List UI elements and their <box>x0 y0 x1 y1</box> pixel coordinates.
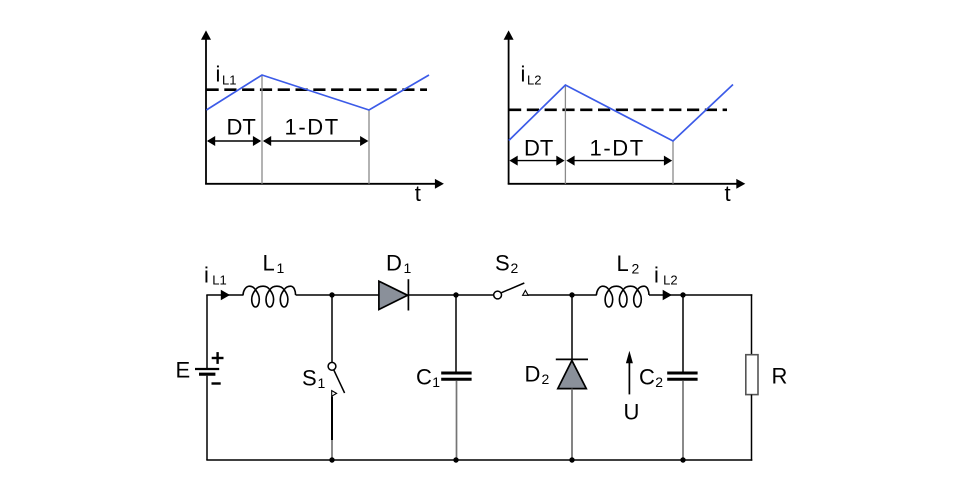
blue inductor current waveform i_L2 <box>509 85 733 142</box>
current arrow i_L1 <box>221 290 230 300</box>
svg-text:DT: DT <box>524 136 553 161</box>
svg-text:i: i <box>654 263 659 288</box>
node: D2 junction bottom <box>569 457 574 462</box>
switch S2 <box>494 283 529 299</box>
svg-text:D: D <box>386 250 402 275</box>
svg-text:R: R <box>772 363 788 388</box>
y-axis (right plot) <box>504 30 514 184</box>
svg-text:U: U <box>624 400 640 425</box>
svg-text:t: t <box>415 181 421 206</box>
node: C1 junction top <box>453 292 458 297</box>
svg-text:L2: L2 <box>527 73 541 88</box>
wire: top rail L2 to corner <box>649 294 752 296</box>
wire: top rail L1 to D1 <box>296 294 379 296</box>
1-DT dimension arrow (right plot) <box>566 156 672 166</box>
wire: C2 branch upper <box>682 295 684 372</box>
svg-text:L: L <box>263 250 275 275</box>
inductor L2 <box>596 286 649 307</box>
svg-text:1: 1 <box>277 260 285 276</box>
wire: left vertical (E branch top) <box>206 295 208 368</box>
svg-text:i: i <box>521 62 526 87</box>
switch S1 <box>328 362 345 396</box>
svg-text:DT: DT <box>227 115 256 140</box>
node: S1 junction bottom <box>329 457 334 462</box>
svg-text:C: C <box>416 365 432 390</box>
blue inductor current waveform i_L1 <box>206 75 429 110</box>
svg-text:2: 2 <box>655 374 663 390</box>
svg-text:C: C <box>639 365 655 390</box>
wire: D2 branch lower gray <box>571 389 573 460</box>
divider at period end (left plot) <box>368 110 370 184</box>
svg-text:1: 1 <box>432 374 440 390</box>
wire: top rail D1 to S2 <box>408 294 493 296</box>
wire: right vertical lower (R branch) <box>751 395 753 461</box>
DT dimension arrow (right plot) <box>509 156 564 166</box>
svg-text:D: D <box>525 362 541 387</box>
divider at period end (right plot) <box>672 141 674 184</box>
svg-text:2: 2 <box>511 260 519 276</box>
wire: S1 branch lower gray <box>331 440 333 460</box>
node: C1 junction bottom <box>453 457 458 462</box>
svg-text:L: L <box>617 251 629 276</box>
divider at DT (right plot) <box>564 85 566 184</box>
y-axis (left plot) <box>201 30 211 184</box>
wire: C1 branch upper <box>455 295 457 372</box>
svg-text:1-DT: 1-DT <box>285 115 340 140</box>
svg-text:2: 2 <box>542 371 550 387</box>
x-axis (left plot) <box>205 179 444 189</box>
svg-text:L1: L1 <box>212 273 226 288</box>
wire: right vertical upper (R branch) <box>751 294 753 355</box>
svg-text:S: S <box>495 250 510 275</box>
DT dimension arrow (left plot) <box>207 136 261 146</box>
inductor L1 <box>243 286 296 307</box>
wire: bottom rail <box>206 459 752 461</box>
svg-text:1: 1 <box>404 260 412 276</box>
node: C2 junction bottom <box>680 457 685 462</box>
svg-text:i: i <box>204 263 209 288</box>
wire: S1 branch upper <box>331 295 333 363</box>
x-axis (right plot) <box>508 179 746 189</box>
svg-text:2: 2 <box>632 260 640 276</box>
node: D2 junction top <box>569 292 574 297</box>
dashed average line (right plot) <box>509 109 727 112</box>
capacitor C1 <box>441 373 471 379</box>
svg-text:E: E <box>176 358 191 383</box>
plus sign <box>212 352 224 364</box>
1-DT dimension arrow (left plot) <box>263 136 369 146</box>
diode D2 <box>556 359 588 388</box>
svg-text:L2: L2 <box>663 273 677 288</box>
wire: C1 branch lower gray <box>456 381 458 460</box>
diode D1 <box>379 279 409 310</box>
divider at DT (left plot) <box>261 75 263 184</box>
minus sign <box>212 382 221 384</box>
wire: top rail S2 to L2 <box>528 294 597 296</box>
wire: C2 branch lower gray <box>682 381 684 460</box>
wire: top rail segment E to L1 <box>206 294 243 296</box>
svg-text:t: t <box>725 181 731 206</box>
voltage arrow U <box>626 351 633 395</box>
current arrow i_L2 <box>663 290 672 300</box>
svg-text:S: S <box>302 366 317 391</box>
svg-text:i: i <box>216 62 221 87</box>
wire: D2 branch upper <box>571 295 573 360</box>
capacitor C2 <box>667 373 697 379</box>
node: L1/S1 junction <box>329 292 334 297</box>
wire: S1 branch lower black <box>331 397 333 441</box>
svg-text:1-DT: 1-DT <box>590 136 645 161</box>
dashed average line (left plot) <box>207 88 428 91</box>
svg-text:1: 1 <box>318 375 326 391</box>
svg-text:L1: L1 <box>222 73 236 88</box>
resistor R <box>746 355 758 395</box>
node: C2 junction top <box>680 292 685 297</box>
wire: left vertical (E branch bottom) <box>206 376 208 460</box>
battery E <box>195 369 219 374</box>
